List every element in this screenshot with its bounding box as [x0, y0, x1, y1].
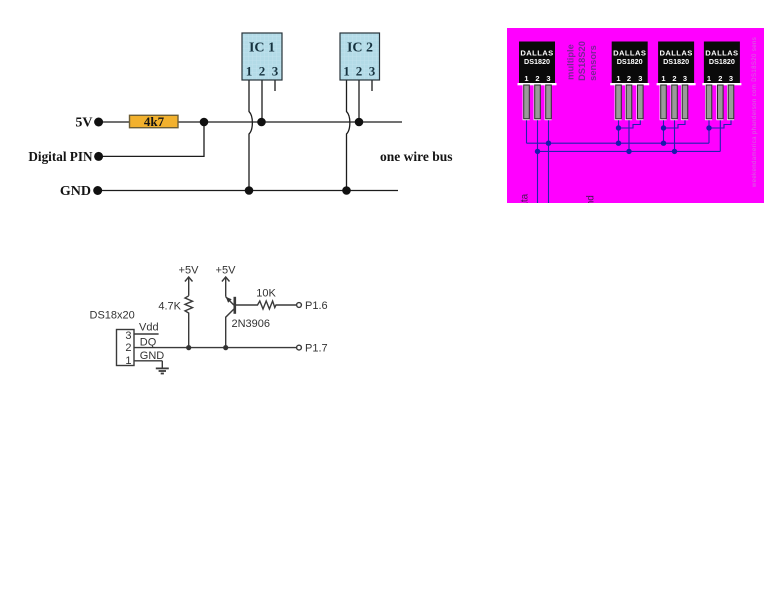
- svg-text:DQ: DQ: [140, 336, 157, 348]
- svg-text:IC 1: IC 1: [249, 41, 275, 56]
- svg-text:Digital PIN: Digital PIN: [28, 149, 93, 164]
- svg-text:2: 2: [535, 74, 539, 83]
- svg-text:1: 1: [707, 74, 711, 83]
- svg-text:IC 2: IC 2: [347, 41, 373, 56]
- svg-text:3: 3: [369, 64, 376, 79]
- svg-text:1: 1: [246, 64, 253, 79]
- svg-text:multiple: multiple: [566, 44, 576, 80]
- svg-text:2: 2: [718, 74, 722, 83]
- svg-text:one wire bus: one wire bus: [380, 149, 453, 164]
- svg-text:DS18x20: DS18x20: [90, 310, 135, 322]
- svg-text:P1.7: P1.7: [305, 343, 328, 355]
- svg-text:1: 1: [343, 64, 350, 79]
- svg-text:+5V: +5V: [216, 265, 237, 277]
- svg-text:gnd: gnd: [586, 195, 597, 212]
- svg-text:10K: 10K: [256, 288, 276, 300]
- svg-text:GND: GND: [140, 350, 165, 362]
- svg-text:2: 2: [627, 74, 631, 83]
- svg-text:3: 3: [729, 74, 733, 83]
- svg-text:DS18S20: DS18S20: [577, 41, 587, 81]
- svg-text:Vdd: Vdd: [139, 322, 159, 334]
- svg-text:3: 3: [638, 74, 642, 83]
- svg-text:3: 3: [125, 330, 131, 342]
- svg-text:GND: GND: [60, 184, 91, 199]
- svg-text:data: data: [520, 193, 531, 213]
- svg-text:1: 1: [661, 74, 665, 83]
- svg-text:3: 3: [683, 74, 687, 83]
- svg-text:DS1820: DS1820: [663, 57, 689, 66]
- svg-text:5V: 5V: [75, 116, 92, 131]
- svg-text:DS1820: DS1820: [709, 57, 735, 66]
- svg-text:3: 3: [546, 74, 550, 83]
- svg-text:P1.6: P1.6: [305, 300, 328, 312]
- svg-text:2: 2: [125, 342, 131, 354]
- svg-text:3: 3: [272, 64, 279, 79]
- svg-text:1: 1: [616, 74, 620, 83]
- svg-text:4k7: 4k7: [144, 114, 165, 129]
- svg-text:DS1820: DS1820: [617, 57, 643, 66]
- svg-text:4.7K: 4.7K: [158, 301, 181, 313]
- svg-text:DS1820: DS1820: [524, 57, 550, 66]
- svg-text:weekendamerica phanderson com: weekendamerica phanderson com DS18S20 se…: [752, 37, 758, 188]
- svg-text:sensors: sensors: [588, 45, 598, 81]
- svg-text:2: 2: [356, 64, 363, 79]
- svg-text:2: 2: [672, 74, 676, 83]
- svg-text:1: 1: [125, 355, 131, 367]
- svg-text:2N3906: 2N3906: [232, 318, 271, 330]
- svg-text:1: 1: [524, 74, 528, 83]
- svg-text:2: 2: [259, 64, 266, 79]
- svg-text:+5V: +5V: [179, 265, 200, 277]
